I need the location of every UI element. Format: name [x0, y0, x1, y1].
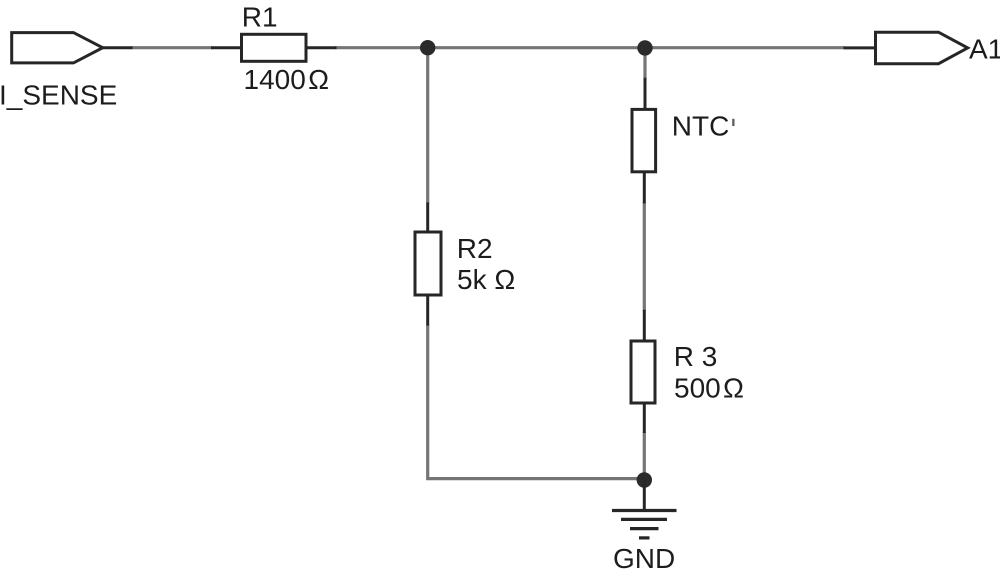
- svg-text:500 Ω: 500 Ω: [674, 372, 744, 403]
- resistor R3: [631, 310, 655, 433]
- junction dot: [637, 40, 652, 55]
- svg-text:A1: A1: [969, 34, 1000, 65]
- connector I_SENSE: [12, 33, 133, 63]
- svg-text:R 3: R 3: [674, 341, 718, 372]
- resistor R1: [211, 34, 337, 61]
- wire: [643, 432, 646, 480]
- connector A1: [844, 32, 968, 64]
- svg-text:R2: R2: [457, 233, 493, 264]
- wire: [131, 46, 212, 49]
- svg-text:1400 Ω: 1400 Ω: [244, 64, 330, 95]
- svg-text:GND: GND: [613, 543, 675, 574]
- wire: [643, 202, 646, 310]
- wire: [335, 46, 429, 49]
- thermistor NTC: [632, 78, 656, 204]
- label NTC tick: [732, 119, 734, 126]
- wire: [644, 46, 845, 49]
- resistor R2: [415, 203, 441, 326]
- wire: [427, 46, 646, 49]
- wire: [426, 48, 429, 204]
- svg-text:NTC: NTC: [672, 111, 730, 142]
- ground: [612, 480, 677, 538]
- junction dot: [637, 472, 652, 487]
- wire: [643, 48, 646, 79]
- svg-text:5k Ω: 5k Ω: [457, 264, 515, 295]
- svg-text:I_SENSE: I_SENSE: [0, 80, 117, 111]
- wire: [428, 325, 646, 479]
- junction dot: [420, 40, 435, 55]
- svg-text:R1: R1: [242, 2, 278, 33]
